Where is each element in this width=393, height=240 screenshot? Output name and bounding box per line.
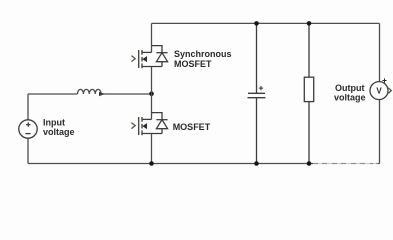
gate drive arrow Q2 [131, 123, 135, 129]
wire bottom rail [28, 163, 380, 165]
svg-text:Input: Input [43, 117, 65, 127]
source lead Q1 [142, 66, 162, 68]
wire output top branch [379, 23, 381, 81]
gate drive arrow Q1 [131, 56, 135, 62]
wire left branch upper [27, 94, 29, 120]
gate bar Q1 [138, 50, 140, 68]
wire input to inductor [28, 93, 78, 95]
svg-text:Synchronous: Synchronous [174, 49, 232, 59]
wire output bottom branch [379, 100, 381, 164]
wire Q1 drain vertical [151, 23, 153, 52]
watermark overlay on bottom rail [313, 161, 378, 165]
channel bar Q1 (3 segments) [141, 50, 143, 68]
svg-text:Output: Output [335, 83, 365, 93]
node dot C1 top [254, 21, 259, 26]
source V1 input voltage [19, 120, 37, 138]
drain lead Q1 [142, 51, 152, 53]
jog to body diode D1 [152, 46, 163, 53]
source lead Q2 [142, 133, 162, 135]
MOSFET Q2 [139, 113, 162, 136]
node dot C1 bottom [254, 161, 259, 166]
body arrow Q2 [142, 123, 147, 129]
voltmeter V output [370, 82, 388, 100]
MOSFET Q1 synchronous [139, 46, 162, 69]
wire left branch lower [27, 138, 29, 163]
svg-text:MOSFET: MOSFET [174, 59, 212, 69]
body arrow Q1 [142, 56, 147, 62]
wire inductor to switch node [101, 93, 152, 95]
jog to body diode D2 [152, 113, 163, 120]
capacitor plates [248, 92, 265, 94]
body diode D2 [156, 120, 167, 134]
node dot R1 bottom [307, 161, 312, 166]
wire top rail [152, 22, 380, 24]
svg-text:MOSFET: MOSFET [173, 122, 211, 132]
node dot R1 top [307, 21, 312, 26]
wire C1 bottom [256, 98, 258, 164]
arrowhead inductor current [99, 92, 105, 96]
wire R1 bottom [308, 102, 310, 164]
wire R1 top [308, 23, 310, 77]
voltmeter arrow [388, 88, 391, 94]
drain lead Q2 [142, 118, 152, 120]
node switch junction dot [149, 91, 154, 96]
wire C1 top [256, 23, 258, 93]
resistor R1 load [304, 23, 313, 163]
wire Q2 source vertical [151, 134, 153, 164]
svg-text:voltage: voltage [334, 93, 366, 103]
resistor body [304, 77, 313, 101]
plus sign C1 [259, 86, 263, 90]
svg-text:voltage: voltage [43, 127, 75, 137]
channel bar Q2 (3 segments) [141, 117, 143, 135]
plus sign voltmeter [382, 78, 386, 82]
capacitor C1 [248, 23, 266, 163]
node dot Q2 source bottom [149, 161, 154, 166]
svg-text:V: V [376, 87, 382, 96]
wire switch node vertical (between mosfets) [151, 23, 153, 163]
body diode D1 [156, 53, 167, 67]
inductor L1 [78, 89, 102, 94]
gate bar Q2 [138, 117, 140, 135]
